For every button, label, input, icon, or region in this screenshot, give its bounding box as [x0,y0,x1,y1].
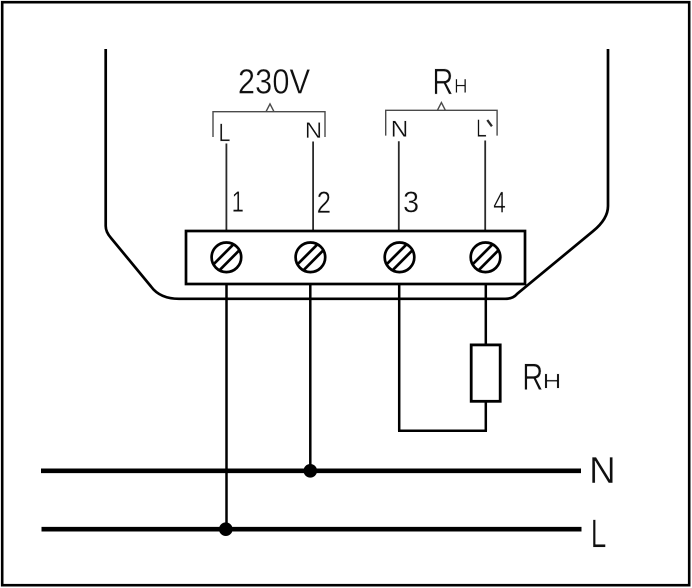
terminal 4 screw [471,242,501,272]
bracket 230V (terminals 1-2) [213,104,325,137]
terminal 2 screw [296,242,326,272]
label RH (resistor) [525,364,542,390]
lead wire terminal 4 [484,141,486,231]
pin number 1 [233,191,243,211]
label 230V [239,69,310,94]
pin number 2 [318,191,330,213]
node label L` (terminal 4) [478,120,487,137]
lead wire terminal 2 [312,142,314,231]
bracket RH (terminals 3-4) [386,103,497,136]
wire terminal 1 to L bus [225,284,228,529]
wire horizontal below resistor [398,430,487,433]
junction dot on N bus [304,464,318,478]
terminal block [186,231,525,284]
lead wire terminal 3 [398,141,400,230]
net label L [593,520,606,548]
L bus wire [42,527,582,532]
terminal 1 screw [212,242,242,272]
N bus wire [41,468,581,473]
wire terminal 2 to N bus [309,284,312,471]
net label N [592,457,613,483]
pin number 4 [494,192,506,213]
resistor RH [471,345,500,401]
node label L (terminal 1) [220,124,230,142]
pin number 3 [404,191,418,212]
wire terminal 3 down [398,284,401,431]
node label N (terminal 2) [307,122,321,137]
terminal 3 screw [385,242,415,272]
label RH (top) [435,69,452,94]
junction dot on L bus [219,522,233,536]
wire resistor to horizontal [485,401,488,431]
node label N (terminal 3) [393,121,407,137]
wire terminal 4 to resistor [485,284,488,345]
lead wire terminal 1 [225,144,227,231]
device outline (relay housing) [106,49,608,299]
